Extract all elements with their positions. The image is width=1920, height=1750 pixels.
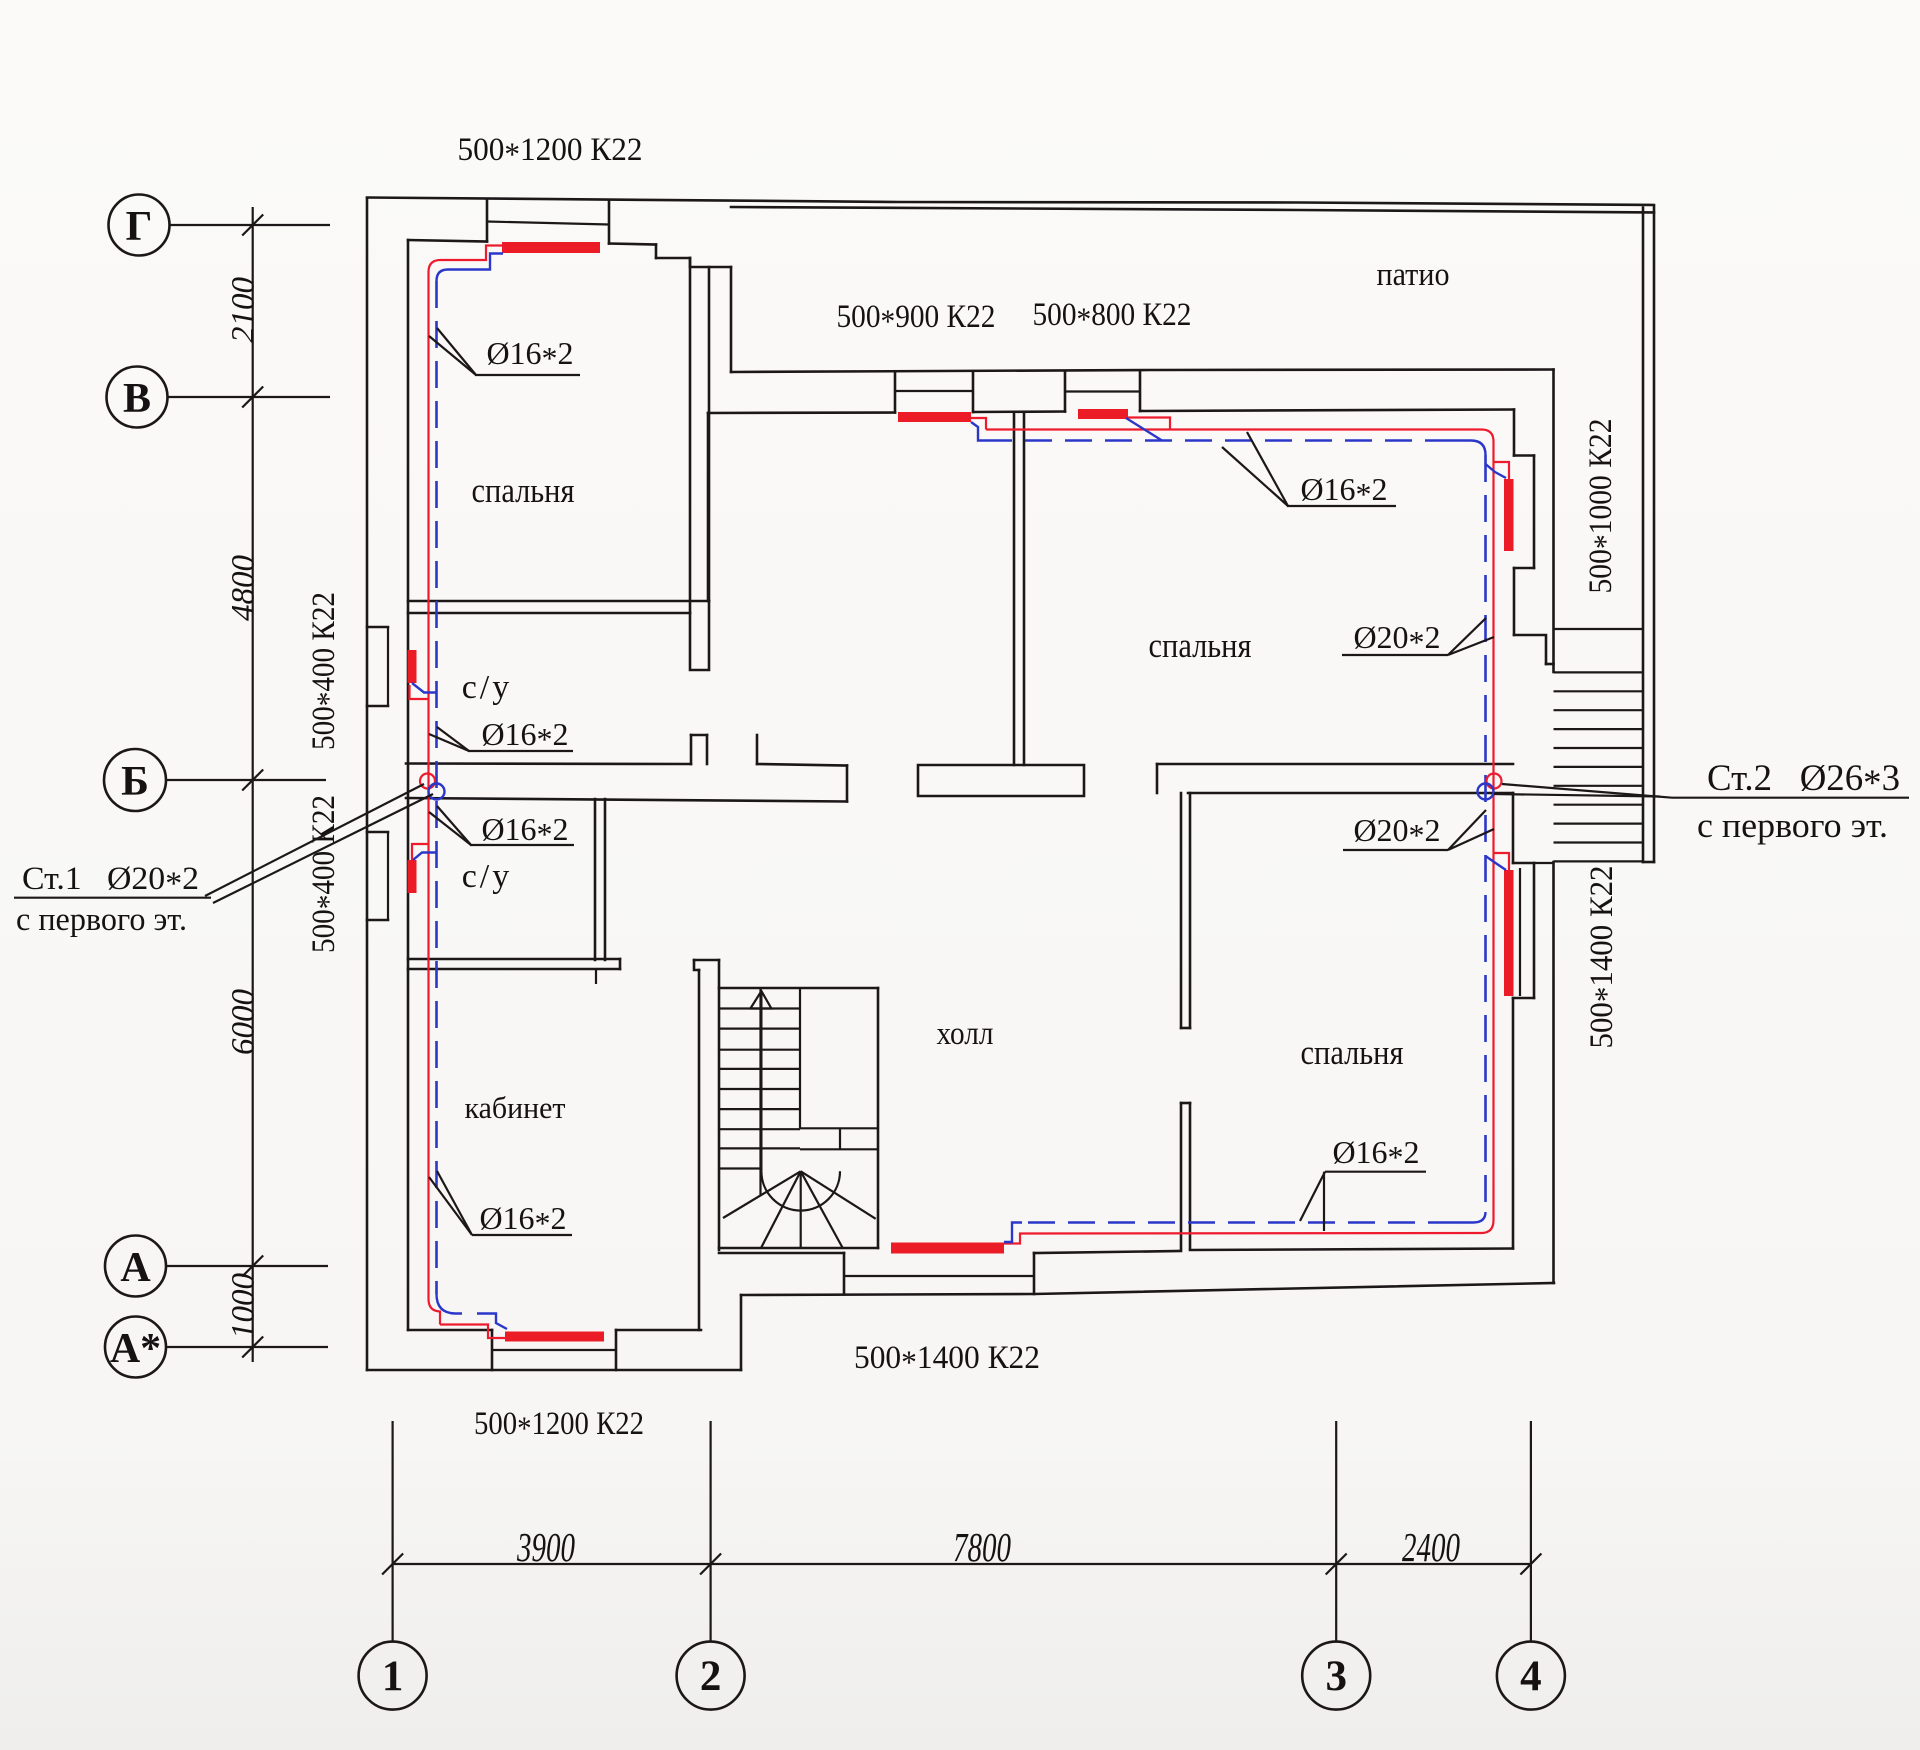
window jambs hall 500*1400 — [843, 1253, 846, 1294]
door jamb pier up left — [690, 735, 693, 764]
svg-text:А: А — [120, 1245, 151, 1291]
svg-text:Ст.1 Ø20*2: Ст.1 Ø20*2 — [22, 861, 199, 902]
axis bottom circle 2 — [677, 1642, 745, 1710]
stair treads upper flight — [719, 1009, 800, 1169]
wall: patio bottom wall outer line — [731, 370, 1554, 373]
bottom axis line 4 — [1530, 1421, 1532, 1641]
window sill bottom 500*1200 — [492, 1349, 616, 1351]
wall: top-left bedroom bottom wall — [408, 600, 709, 603]
axis bottom circle 1 — [359, 1642, 427, 1710]
svg-text:500*1400 К22: 500*1400 К22 — [1584, 866, 1625, 1049]
left vertical dimension line — [252, 207, 254, 1362]
svg-text:7800: 7800 — [953, 1524, 1011, 1570]
corridor edge above bedroom — [707, 413, 710, 601]
radiator hall bottom — [891, 1243, 1004, 1254]
axis bottom circle 3 — [1302, 1642, 1370, 1710]
window jambs patio 500*800 — [1064, 371, 1067, 412]
pipe: blue connector left wall upper radiator — [412, 683, 437, 693]
window bay 500*1000 top bedroom — [1514, 454, 1534, 457]
wall: right outer line of bedrooms — [1552, 370, 1555, 673]
window sill hall 500*1400 — [844, 1275, 1034, 1277]
wall: patio left edge — [730, 267, 733, 372]
wall: left outer wall inner line (rooms face) — [407, 240, 410, 1330]
axis circle A — [105, 1236, 166, 1297]
axis bottom circle 4 — [1497, 1642, 1565, 1710]
wall: axis B wall right segment — [1157, 763, 1513, 766]
svg-text:500*1200 К22: 500*1200 К22 — [474, 1406, 644, 1447]
svg-text:4: 4 — [1520, 1653, 1542, 1700]
pipe: red connector left wall upper radiator — [410, 685, 429, 699]
svg-text:500*400 К22: 500*400 К22 — [306, 795, 347, 953]
pipe: blue bottom-left corner and run — [437, 1294, 508, 1329]
svg-text:1: 1 — [382, 1653, 404, 1700]
svg-text:500*1200 К22: 500*1200 К22 — [458, 132, 643, 173]
svg-text:спальня: спальня — [472, 471, 575, 510]
radiator kabinet bottom — [505, 1332, 604, 1342]
wall: bottom outer wall hall/bedroom section — [741, 1283, 1554, 1295]
wall: stair well left wall — [694, 959, 719, 962]
svg-text:2: 2 — [700, 1653, 722, 1700]
pipe: blue connector hall radiator — [1004, 1223, 1022, 1243]
svg-text:1000: 1000 — [226, 1273, 262, 1340]
radiator patio window 500*800 — [1078, 409, 1128, 419]
stair treads lower right — [800, 1128, 878, 1149]
svg-text:Ø16*2: Ø16*2 — [1332, 1134, 1419, 1175]
door jamb tick below kabinet wall — [595, 969, 597, 984]
pipe: blue right riser dashed vertical — [1484, 455, 1487, 1212]
pipe: red connector left wall lower radiator — [412, 844, 429, 860]
svg-text:500*1000 К22: 500*1000 К22 — [1583, 419, 1624, 594]
axis circle G — [109, 195, 170, 256]
axis circle V — [107, 367, 168, 428]
svg-text:Г: Г — [126, 204, 153, 250]
wall: top outer wall (slightly bowed) — [367, 198, 1654, 206]
wall: top-right bedroom top inner face — [708, 411, 895, 414]
wall: axis B wall left segment right cap — [846, 766, 849, 802]
svg-text:с/у: с/у — [462, 858, 513, 895]
wall: kabinet top wall — [408, 958, 620, 961]
svg-text:В: В — [123, 376, 151, 422]
svg-text:500*1400 К22: 500*1400 К22 — [854, 1340, 1040, 1381]
wall: top-left bedroom right wall — [689, 258, 692, 613]
window sill patio 500*800 — [1065, 390, 1140, 392]
wall: T piece column between hall and NE bedroom — [1013, 413, 1016, 765]
stair flight mid line — [759, 988, 761, 1196]
wall: axis B wall left segment top line right part — [757, 764, 847, 766]
bottom axis line 3 — [1335, 1421, 1337, 1641]
pipe: blue top-right corner — [1452, 441, 1486, 456]
axis line G — [170, 224, 331, 226]
radiator right wall lower 500*1400 — [1504, 870, 1514, 996]
node: riser St1 blue circle — [429, 784, 445, 800]
exterior stair landing edge — [1554, 628, 1644, 630]
window jambs left wall lower 500*400 — [367, 831, 388, 834]
pipe: blue connector left wall lower radiator — [413, 853, 437, 861]
window sill patio 500*900 — [895, 390, 973, 392]
svg-text:4800: 4800 — [226, 555, 262, 622]
pipe: blue bottom-right dashed run — [1022, 1221, 1455, 1224]
node: riser St1 red circle — [420, 774, 435, 789]
pipe: right riser red vertical with corners — [1482, 430, 1494, 1234]
wall: hall bottom inner line — [719, 1252, 844, 1255]
wall step right of top-left bedroom — [690, 258, 731, 267]
door jamb right of pier — [756, 735, 759, 764]
wall: patio top wall inner line — [731, 207, 1654, 213]
wall: top-left bedroom top inner face — [408, 240, 487, 242]
window jambs top 500*1200 — [486, 199, 489, 242]
svg-text:500*900 К22: 500*900 К22 — [837, 299, 996, 340]
wall: bottom outer wall left section — [367, 1369, 741, 1372]
stair winder semicircle — [761, 1171, 840, 1210]
svg-text:2400: 2400 — [1402, 1524, 1460, 1570]
svg-text:с/у: с/у — [462, 669, 513, 706]
wall step under bay to stairs — [1514, 635, 1546, 664]
pipe: red connector right wall upper radiator — [1494, 462, 1510, 479]
wall pier below bedroom wall — [690, 601, 709, 670]
radiator patio window 500*900 — [898, 412, 971, 422]
window sill left wall upper 500*400 — [387, 627, 389, 706]
axis line A* — [166, 1346, 328, 1348]
pipe: red bottom-right run — [1003, 1233, 1482, 1244]
bottom axis line 1 — [392, 1421, 394, 1641]
wall: axis B middle T piece — [918, 765, 1084, 796]
pipe: blue bottom-right corner — [1455, 1212, 1486, 1223]
pipe: blue connector right wall upper radiator — [1486, 464, 1507, 478]
wall: right bedroom wall inner face lower room — [1512, 793, 1515, 863]
window jambs bottom 500*1200 — [491, 1330, 494, 1370]
axis line A — [166, 1265, 328, 1267]
pipe: blue top-right dashed run — [990, 439, 1452, 442]
pipe: red connector right wall lower radiator — [1494, 853, 1510, 870]
stair enclosure — [719, 987, 878, 990]
pipe: red bottom-left run to radiator — [440, 1325, 506, 1339]
wall: right bedroom wall inner face upper room — [1513, 410, 1516, 456]
radiator top-left bedroom — [502, 242, 600, 253]
pipe: blue top-left corner and run — [437, 254, 504, 282]
wall: left outer wall outer line — [366, 198, 369, 1370]
axis circle A* — [105, 1317, 166, 1378]
svg-text:6000: 6000 — [226, 989, 262, 1056]
node: riser St2 blue circle — [1478, 784, 1494, 800]
svg-text:500*800 К22: 500*800 К22 — [1033, 297, 1192, 338]
dimension ticks bottom — [382, 1554, 1541, 1575]
axis line B — [166, 779, 326, 781]
svg-text:Б: Б — [121, 759, 149, 805]
svg-text:3: 3 — [1325, 1653, 1347, 1700]
pipe: blue connector right wall lower radiator — [1486, 856, 1507, 870]
wall: axis B wall left segment bottom line — [406, 798, 847, 802]
radiator right wall upper 500*1000 — [1504, 479, 1514, 551]
pipe: red top-right run — [971, 418, 1482, 430]
svg-text:холл: холл — [937, 1016, 994, 1052]
window jambs left wall upper 500*400 — [367, 626, 388, 629]
stair winder lines — [723, 1171, 876, 1248]
pipe: left riser red supply vertical — [429, 260, 441, 1325]
wall: bottom step at hall porch — [740, 1295, 743, 1370]
svg-text:спальня: спальня — [1149, 626, 1252, 665]
stair direction arrow — [760, 991, 762, 1171]
svg-text:с первого эт.: с первого эт. — [1697, 806, 1888, 845]
svg-text:2100: 2100 — [226, 277, 262, 344]
radiator left wall lower — [408, 860, 417, 893]
pipe: blue left riser dashed vertical — [435, 281, 438, 1294]
dimension ticks left — [242, 215, 263, 1358]
wall: SE bedroom bottom inner line — [1190, 1249, 1513, 1251]
svg-text:кабинет: кабинет — [465, 1090, 566, 1125]
window jambs patio 500*900 — [894, 372, 897, 413]
svg-text:500*400 К22: 500*400 К22 — [306, 592, 347, 750]
pipe: blue connector patio radiator 500*900 — [971, 422, 990, 441]
stair landing divider — [799, 988, 801, 1128]
window bay 500*1400 lower bedroom — [1513, 862, 1534, 865]
window sill top 500*1200 — [487, 222, 609, 225]
wall: su2 right wall — [594, 799, 597, 960]
pipe: blue connector patio radiator 500*800 — [1126, 418, 1162, 441]
svg-text:Ø16*2: Ø16*2 — [486, 335, 573, 376]
bottom axis line 2 — [709, 1421, 711, 1641]
axis circle B — [104, 749, 166, 811]
wall: axis B wall left segment top line — [406, 762, 691, 765]
node: riser St2 red circle — [1487, 774, 1502, 789]
wall: kabinet bottom inner line — [408, 1329, 492, 1332]
svg-text:Ø20*2: Ø20*2 — [1353, 812, 1440, 853]
pipe: red top-left run to radiator — [441, 246, 504, 261]
svg-text:с первого эт.: с первого эт. — [16, 902, 187, 938]
window sill left wall lower 500*400 — [387, 832, 389, 920]
svg-text:спальня: спальня — [1301, 1033, 1404, 1072]
bottom dimension line — [393, 1563, 1531, 1565]
svg-text:3900: 3900 — [516, 1524, 575, 1570]
exterior stairs treads — [1554, 672, 1644, 861]
wall: patio right outer wall double line — [1642, 208, 1645, 863]
svg-text:патио: патио — [1377, 257, 1450, 293]
partition hall / SE bedroom — [1180, 793, 1183, 1028]
axis line V — [168, 396, 331, 398]
radiator left wall upper — [408, 650, 417, 683]
svg-text:А*: А* — [110, 1326, 161, 1372]
svg-text:Ø20*2: Ø20*2 — [1353, 619, 1440, 660]
